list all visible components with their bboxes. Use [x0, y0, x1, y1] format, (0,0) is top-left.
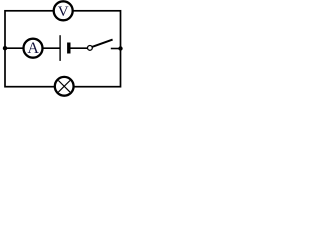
svg-text:A: A	[27, 40, 39, 57]
wire middle branch: battery to switch	[70, 47, 88, 49]
voltmeter V1 circle	[54, 1, 73, 20]
lamp L1 cross line 1	[58, 81, 70, 93]
wire switch contact stub to right border	[111, 48, 121, 50]
lamp L1 circle	[55, 77, 74, 96]
wire outer rectangle loop	[5, 11, 121, 87]
ammeter A1 circle	[24, 39, 43, 58]
switch S1 blade (open)	[92, 40, 113, 47]
wire middle branch: left dot to battery	[4, 47, 59, 49]
node junction dot right	[118, 46, 122, 50]
svg-text:V: V	[58, 4, 69, 20]
lamp L1 cross line 2	[58, 81, 70, 93]
battery cell short thick plate	[67, 43, 70, 54]
switch S1 pivot circle	[88, 46, 93, 51]
battery cell long plate	[59, 35, 61, 61]
node junction dot left	[3, 46, 7, 50]
